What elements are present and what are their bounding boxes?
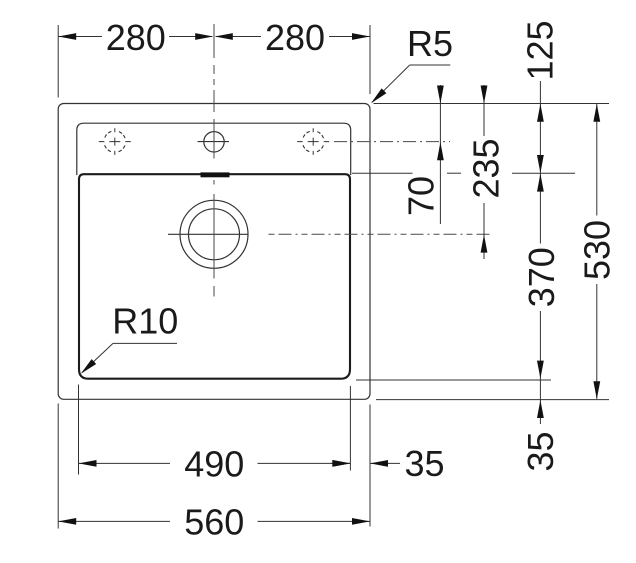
outer sink outline bbox=[58, 104, 370, 400]
dimension 530 bbox=[596, 104, 598, 399]
extension line right of top edge bbox=[374, 103, 610, 105]
centerline vertical bbox=[213, 24, 215, 297]
svg-text:530: 530 bbox=[576, 220, 617, 280]
svg-text:35: 35 bbox=[520, 431, 561, 471]
dimension 490 bbox=[79, 462, 351, 464]
dimension 560 bbox=[58, 520, 370, 522]
drain centerline extension right bbox=[269, 233, 492, 235]
extension line outer left bottom bbox=[57, 404, 59, 529]
dimension 35 right text bbox=[537, 400, 544, 418]
svg-text:35: 35 bbox=[404, 443, 444, 484]
extension line bowl left bottom bbox=[78, 385, 80, 475]
faucet centerline horizontal right portion bbox=[334, 141, 450, 143]
overflow slot bbox=[201, 172, 230, 177]
drain crosshair horizontal bbox=[168, 233, 248, 235]
extension line top left bbox=[57, 25, 59, 98]
dimension 235 bbox=[483, 85, 485, 259]
dimension 280 left bbox=[58, 36, 212, 38]
svg-text:490: 490 bbox=[184, 443, 244, 484]
faucet side hole left (dashed) bbox=[104, 131, 126, 153]
bowl outline R10 bbox=[79, 174, 350, 379]
svg-text:370: 370 bbox=[521, 247, 562, 307]
extension line bowl bottom right bbox=[356, 379, 551, 381]
faucet hole center circle bbox=[204, 132, 224, 152]
drain inner circle bbox=[189, 209, 240, 260]
dimension 35 bottom bbox=[331, 462, 400, 464]
faucet side hole right (dashed) bbox=[302, 131, 324, 153]
svg-text:280: 280 bbox=[265, 17, 325, 58]
extension line outer bottom right bbox=[376, 399, 609, 401]
dimension 280 right bbox=[216, 36, 370, 38]
drain outer circle bbox=[180, 200, 248, 268]
faucet hole center crosshair bbox=[198, 141, 230, 143]
dimension 370 text bbox=[537, 174, 544, 192]
svg-text:560: 560 bbox=[184, 501, 244, 542]
extension line bowl top right bbox=[352, 172, 413, 174]
extension line top right bbox=[369, 25, 371, 94]
svg-text:125: 125 bbox=[520, 20, 561, 80]
svg-text:70: 70 bbox=[401, 176, 442, 216]
svg-text:R10: R10 bbox=[112, 301, 178, 342]
extension line bowl right bottom bbox=[349, 386, 351, 471]
dimension 70 bbox=[439, 85, 441, 224]
svg-text:235: 235 bbox=[466, 138, 507, 198]
extension line outer right bottom bbox=[369, 405, 371, 527]
inner rim outline bbox=[77, 123, 351, 175]
svg-text:R5: R5 bbox=[407, 23, 453, 64]
svg-text:280: 280 bbox=[106, 17, 166, 58]
dimension 125 / 370 / 35 line bbox=[539, 81, 541, 424]
